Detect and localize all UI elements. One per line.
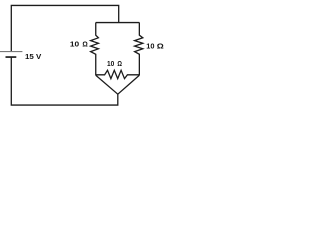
svg-text:10: 10 bbox=[146, 44, 154, 51]
svg-text:15 V: 15 V bbox=[25, 52, 41, 61]
svg-text:Ω: Ω bbox=[117, 61, 122, 68]
svg-text:10: 10 bbox=[107, 61, 114, 68]
svg-text:10: 10 bbox=[70, 42, 79, 49]
svg-text:Ω: Ω bbox=[157, 44, 164, 51]
svg-text:Ω: Ω bbox=[82, 42, 88, 49]
